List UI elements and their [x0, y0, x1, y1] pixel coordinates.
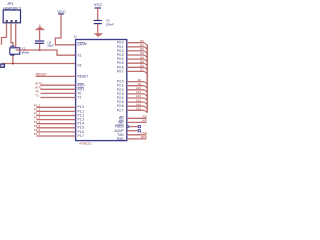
svg-text:P0.7: P0.7 — [117, 69, 124, 73]
svg-text:T1: T1 — [35, 94, 39, 98]
svg-text:X2: X2 — [78, 63, 82, 67]
svg-text:RXD: RXD — [141, 135, 147, 139]
svg-text:P2.7: P2.7 — [117, 108, 124, 112]
svg-text:X1: X1 — [78, 53, 82, 57]
svg-text:20pF: 20pF — [47, 44, 54, 48]
svg-text:WR: WR — [142, 119, 147, 123]
svg-text:RXD: RXD — [117, 137, 124, 141]
svg-text:RESET: RESET — [78, 75, 89, 79]
svg-text:A15: A15 — [136, 107, 142, 111]
svg-text:JP3: JP3 — [7, 2, 13, 6]
svg-text:T1: T1 — [78, 96, 82, 100]
svg-text:100nF: 100nF — [106, 22, 114, 26]
svg-text:D7: D7 — [140, 68, 144, 72]
svg-text:31: 31 — [74, 34, 77, 38]
svg-text:P1.7: P1.7 — [78, 134, 85, 138]
svg-text:RESET: RESET — [36, 72, 47, 76]
svg-text:P1.7: P1.7 — [34, 132, 41, 136]
svg-text:8MHz: 8MHz — [22, 50, 30, 54]
svg-text:VCC: VCC — [57, 9, 66, 14]
svg-text:VCC: VCC — [94, 2, 103, 7]
svg-text:EA/VP: EA/VP — [78, 43, 87, 47]
svg-text:AT89C51: AT89C51 — [79, 142, 92, 146]
